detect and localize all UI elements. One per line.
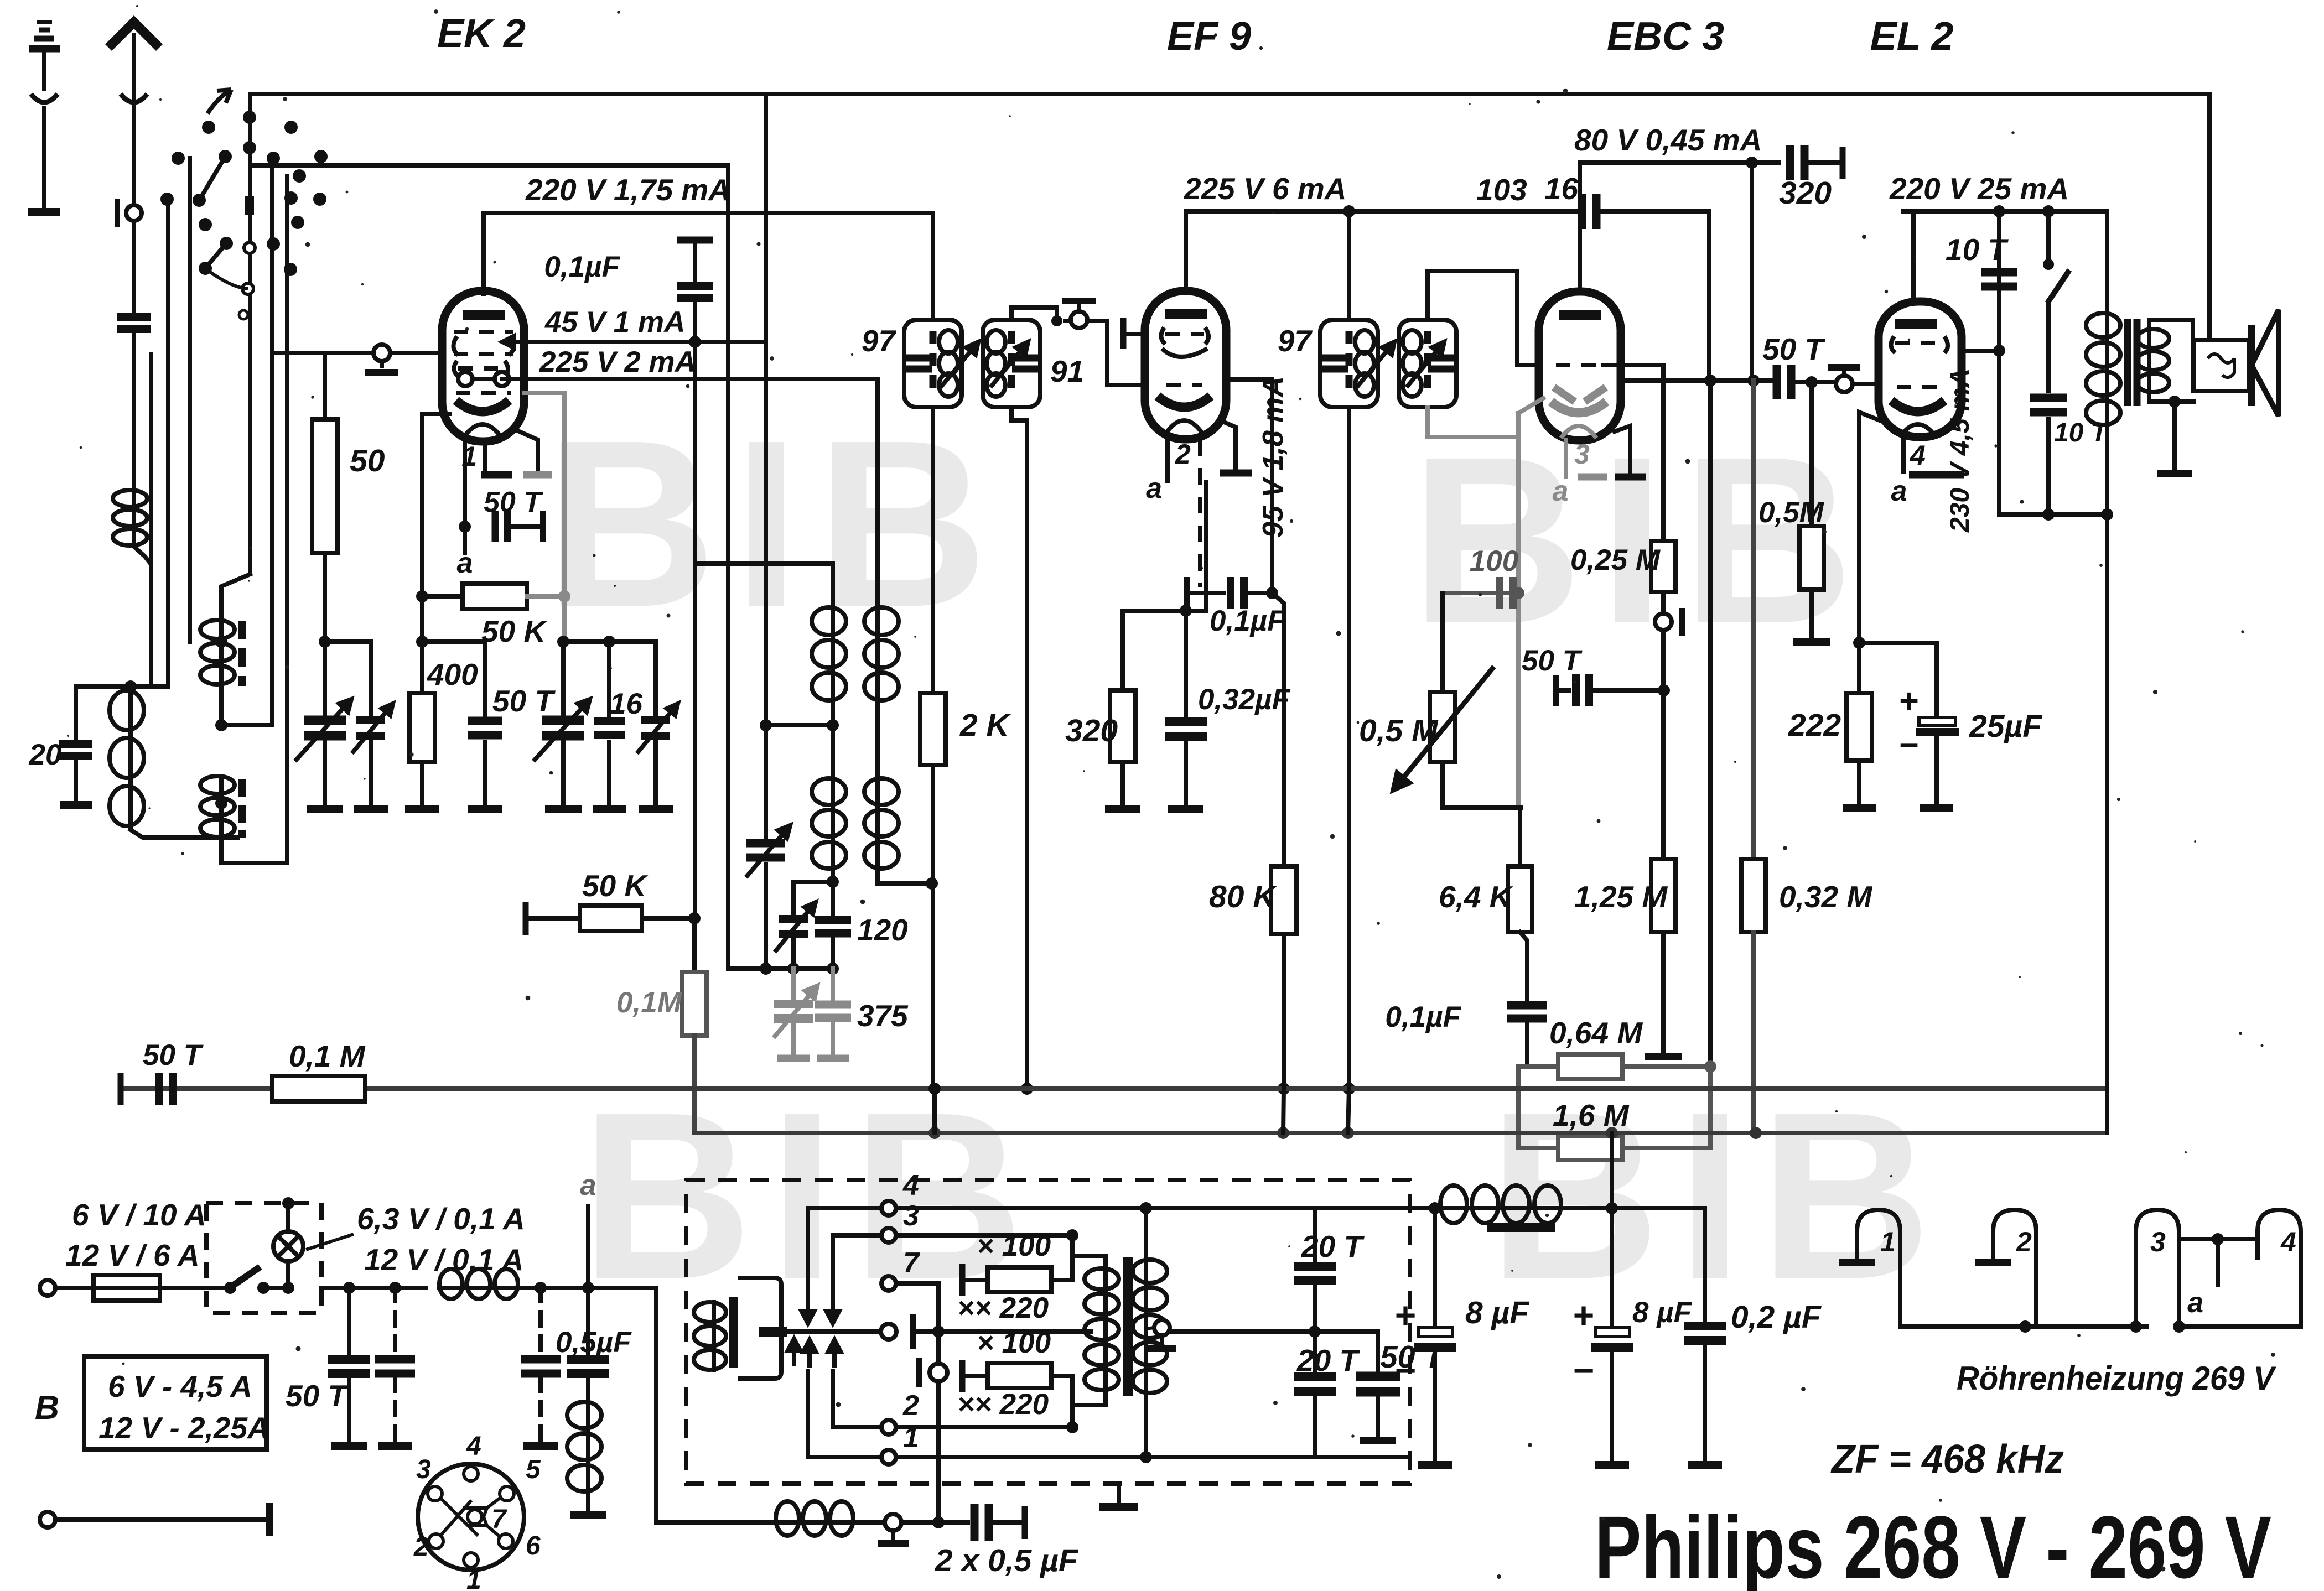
svg-text:6,3 V / 0,1 A: 6,3 V / 0,1 A (357, 1202, 525, 1236)
node choke in (1429, 1202, 1441, 1214)
capacitor 0.32uF (1165, 722, 1207, 736)
node 45V cap (689, 336, 701, 348)
switch contact dot 3 (243, 111, 256, 124)
wire 225V ext (1349, 209, 1577, 214)
ground 375 b (817, 1055, 849, 1062)
svg-text:3: 3 (416, 1455, 431, 1484)
svg-text:100: 100 (1470, 545, 1518, 578)
svg-text:8 µF: 8 µF (1465, 1295, 1530, 1330)
wire det row (1443, 591, 1518, 595)
wire 320 row (1123, 609, 1206, 613)
wire 032 stem (1184, 611, 1188, 720)
capacitor 16 coupling (1582, 194, 1596, 229)
wire contact7 (896, 1281, 938, 1286)
switch arc (210, 272, 248, 289)
capacitor 50T coupling (1777, 365, 1791, 399)
wire osec top (2149, 320, 2193, 340)
wire x3166 drop (1750, 163, 1754, 381)
capacitor 50T power (328, 1359, 370, 1374)
wire lamp top (286, 1203, 290, 1231)
coil osc sec lower (200, 774, 235, 839)
node 20T mid (1309, 1325, 1321, 1338)
wire contact2 left (833, 1371, 881, 1427)
wire input (55, 1286, 94, 1290)
svg-text:0,2 µF: 0,2 µF (1731, 1299, 1822, 1335)
svg-text:EK 2: EK 2 (437, 12, 526, 56)
wire IF2 sec bottom (1428, 407, 1518, 437)
EK2 pin right bar (523, 471, 552, 479)
EF9 right pin gnd (1220, 470, 1252, 477)
capacitor 0.1uF EF9 (1231, 577, 1244, 609)
wire 50Tp gnd (1376, 1395, 1380, 1436)
svg-text:120: 120 (857, 913, 908, 947)
svg-text:400: 400 (427, 657, 478, 691)
node row 120b (827, 963, 839, 975)
cap 0.1uF EF9 end (1184, 577, 1190, 609)
bus left terminal (118, 1073, 124, 1105)
EBC3 pin 3 (1564, 440, 1568, 477)
wire c16 gnd (607, 742, 611, 803)
vibrator core bar (729, 1297, 738, 1368)
wire 0.5M stem (1809, 382, 1814, 526)
coil output primary (2086, 311, 2120, 427)
svg-text:4: 4 (1910, 440, 1926, 471)
wire pot bottom (1440, 762, 1445, 808)
svg-text:3: 3 (903, 1200, 919, 1232)
EK2 grid cap circle (373, 345, 390, 361)
EBC3 bar right (1615, 474, 1646, 481)
capacitor 8uF no2 (1591, 1328, 1633, 1352)
switch contact dot 7 (267, 152, 280, 165)
ground c50T (331, 1442, 367, 1450)
node 50K right (558, 590, 570, 602)
wire 50T stem (483, 642, 487, 719)
wire IF1 prim bottom (931, 407, 935, 693)
IF2 sec trim arrow (1407, 342, 1444, 387)
node c50T (343, 1282, 355, 1294)
capacitor 50T tune (468, 721, 502, 735)
core lower (238, 779, 246, 838)
resistor 0.5M grid (1799, 526, 1824, 590)
svg-text:97: 97 (1278, 324, 1313, 358)
node a 50T (459, 521, 471, 533)
wire IF2 sec top route (1428, 271, 1539, 365)
wire row1160 a (325, 642, 371, 714)
wire switch col x492 (270, 158, 274, 725)
speaker horn bar (2248, 325, 2255, 406)
switch contact dot 13 (291, 216, 304, 229)
wire 120 top row (793, 880, 833, 884)
vibrator reed contact (881, 1324, 896, 1339)
node row trim (760, 963, 772, 975)
ground vc1 (307, 805, 343, 813)
svg-text:7: 7 (903, 1247, 920, 1279)
bottom choke (774, 1501, 855, 1536)
svg-text:225 V 2 mA: 225 V 2 mA (539, 346, 696, 378)
cap 0.1uF stem2 (693, 301, 697, 342)
tap dot lower coil (215, 797, 227, 809)
EK2 grid stem (380, 361, 384, 366)
voltage box (84, 1356, 267, 1449)
wire 16M left (1518, 1067, 1558, 1148)
wire 375 stub a (791, 969, 796, 1000)
capacitor dashed 2 (521, 1359, 561, 1374)
resistor 50K (463, 584, 527, 609)
switch lever 2 (205, 243, 226, 268)
wire contact3 left (833, 1235, 881, 1292)
ground 50T (468, 805, 502, 813)
wire node to x304 (131, 684, 168, 689)
svg-text:+: + (1573, 1294, 1595, 1335)
EK2 pin 1 (483, 441, 487, 471)
svg-text:50 T: 50 T (143, 1039, 204, 1072)
box gnd stem (1117, 1484, 1121, 1502)
wire 0.1M down (692, 1036, 697, 1133)
vib prim bot lead (1072, 1392, 1106, 1427)
wire c50T gnd (347, 1377, 351, 1442)
sec center circle (1154, 1320, 1170, 1335)
wire 50T to bar (508, 524, 541, 529)
svg-text:6 V - 4,5 A: 6 V - 4,5 A (108, 1369, 252, 1403)
switch contact dot 5 (172, 152, 185, 165)
svg-text:Philips 268 V - 269 V: Philips 268 V - 269 V (1595, 1498, 2271, 1591)
svg-text:EF 9: EF 9 (1167, 14, 1251, 59)
wire 400 stem (420, 642, 424, 693)
wire EF9 gridcap stub (1126, 332, 1145, 336)
ground 0.5uF coil (570, 1511, 606, 1519)
svg-text:97: 97 (862, 324, 897, 358)
pointer line lamp (308, 1235, 352, 1249)
node c05 (582, 1282, 594, 1294)
wire 16M right (1622, 1067, 1710, 1148)
wire EBC3 anode riser (1578, 163, 1582, 292)
capacitor 2x0.5uF (974, 1504, 989, 1541)
trimmer capacitor T3 arrow (637, 704, 678, 753)
bus B second (250, 163, 728, 168)
ground 0.2uF (1688, 1461, 1722, 1469)
resistor 1.25M (1651, 859, 1675, 932)
sec center stem (1160, 1335, 1164, 1345)
switch contact dot 6 (219, 150, 232, 163)
wire x1316 drop (726, 165, 730, 969)
tube EF9 (1145, 291, 1226, 439)
socket pin 7 (468, 1510, 482, 1524)
wire 2x05 end (988, 1520, 1023, 1525)
wire grey down to 1160 (564, 596, 609, 642)
wire 222 gnd (1857, 761, 1861, 803)
wire spk link (2175, 399, 2193, 404)
node 80K top (1266, 587, 1278, 599)
svg-text:222: 222 (1788, 708, 1841, 743)
wire 320 gnd (1120, 762, 1125, 803)
wire 20T1 stem (1313, 1208, 1317, 1262)
vibrator dashed box (686, 1180, 1410, 1484)
wire cdash1 stem (393, 1288, 397, 1355)
wire 400 gnd (420, 762, 424, 803)
capacitor 20T upper (1294, 1266, 1336, 1281)
svg-text:50 T: 50 T (286, 1379, 349, 1413)
svg-text:25µF: 25µF (1969, 709, 2043, 744)
wire 120 trim bottom (791, 938, 796, 969)
svg-text:225 V 6 mA: 225 V 6 mA (1184, 171, 1347, 206)
resistor 50 (312, 419, 338, 553)
svg-text:4: 4 (2280, 1226, 2296, 1257)
node 2x05 (932, 1516, 945, 1528)
switch contact dot 14 (313, 193, 326, 206)
wire coil gnd link (586, 1377, 590, 1400)
svg-text:a: a (457, 547, 473, 579)
wire c50T stem (347, 1288, 351, 1355)
wire 80K col down (1272, 593, 1284, 866)
svg-text:0,1µF: 0,1µF (1385, 1001, 1461, 1033)
socket pin 5 (500, 1486, 514, 1501)
wire to 125M (1661, 690, 1666, 859)
vibrator transformer secondary (1133, 1257, 1167, 1395)
switch contact bar (245, 196, 254, 215)
node x1689 bus (928, 1083, 941, 1095)
EK2 grid g3 (454, 352, 513, 356)
EK2 cathode (456, 401, 509, 412)
wire fuse to box (160, 1286, 226, 1290)
wire vc3 gnd (561, 742, 566, 803)
svg-text:2: 2 (902, 1390, 919, 1422)
EK2 pin right (517, 430, 538, 471)
EL2 grid g2 (1895, 341, 1943, 345)
wire vc1 gnd (323, 742, 327, 803)
node heater a2 (2212, 1233, 2224, 1245)
node bus2048 a (928, 1127, 941, 1139)
IF1 sec trim arrow (990, 342, 1028, 387)
vib arrow d1 (802, 1294, 814, 1323)
cap 0.1uF top bar (677, 237, 713, 244)
wire 50K2 right (642, 916, 694, 921)
trimmer capacitor osc (746, 843, 785, 857)
svg-text:× 100: × 100 (977, 1230, 1051, 1262)
svg-text:0,1 M: 0,1 M (289, 1039, 366, 1073)
wire 2K down (931, 765, 935, 1089)
svg-text:320: 320 (1065, 713, 1118, 748)
svg-text:20 T: 20 T (1296, 1343, 1360, 1377)
terminal 50K2 (523, 902, 529, 935)
switch lever 1 (199, 157, 225, 200)
wire contact1 left (808, 1371, 881, 1457)
EF9 a dashed line (1198, 439, 1202, 587)
psu choke (1438, 1186, 1563, 1223)
node 3091 (1704, 375, 1716, 387)
switch contact dot 15 (199, 218, 212, 231)
EL2 cathode (1891, 401, 1944, 412)
EK2 pin a line (463, 441, 467, 527)
switch arrow (207, 90, 231, 113)
power rail (321, 1286, 426, 1290)
EL2 grid hooks (1891, 336, 1948, 353)
wire x1696 (936, 1283, 941, 1522)
resistor 400 (409, 693, 435, 762)
capacitor 50T det (1576, 674, 1589, 706)
wire padder row (728, 966, 833, 971)
wire otp bottom (2105, 427, 2109, 514)
wire reed to primary (946, 1329, 1091, 1334)
wire earth stem (42, 51, 46, 89)
wire 50 res drop (323, 353, 327, 419)
socket pin 4 (464, 1467, 478, 1481)
node sw (2042, 205, 2055, 217)
wire 50Tp top (1376, 1332, 1380, 1373)
wire 225V 6mA (1186, 209, 1349, 214)
wire IF1 sec top (1011, 308, 1057, 321)
tube EL2 (1879, 301, 1962, 437)
wire 45V (524, 340, 766, 344)
EK2 heater link (473, 377, 495, 381)
svg-text:50 K: 50 K (481, 614, 548, 648)
node sec top (1140, 1202, 1152, 1214)
input terminal (40, 1280, 55, 1296)
EL2 pin bar (1909, 471, 1964, 479)
wire 02uF gnd (1703, 1344, 1707, 1460)
wire x1586 drop (875, 379, 880, 605)
svg-text:B: B (35, 1389, 59, 1426)
node det 50T (1658, 684, 1670, 696)
wire 230V row (1999, 512, 2107, 517)
node 230V b (2101, 508, 2113, 521)
wire switch col x273 top (149, 354, 153, 564)
wire 50K2 left (526, 916, 580, 921)
vibrator transformer primary (1085, 1266, 1119, 1392)
ground t3 (639, 805, 673, 813)
tube socket circle (418, 1464, 524, 1570)
trimmer osc arrow (746, 825, 790, 877)
plug socket cup left (31, 94, 58, 102)
wire x2319 link (1283, 1089, 1284, 1133)
wire switch col x304 (166, 200, 170, 687)
node prim bot (1066, 1421, 1078, 1433)
wire a to cap (1187, 591, 1224, 595)
svg-text:230 V 4,5 mA: 230 V 4,5 mA (1946, 368, 1975, 533)
trimmer capacitor 375t (774, 1004, 813, 1018)
EF9 cathode cup (1166, 420, 1202, 433)
wire 20T to reed (1169, 1329, 1315, 1334)
svg-text:+: + (1899, 682, 1919, 720)
wire busA drop (2207, 94, 2212, 340)
ground 0.5M (1793, 638, 1830, 646)
switch blade power (228, 1267, 260, 1289)
wire 320cap end (1804, 160, 1840, 165)
wire x3613 (1997, 211, 2001, 514)
vibrator transformer core (1123, 1257, 1133, 1396)
IF transformer 2 primary can (1320, 320, 1378, 407)
IF transformer 1 secondary can cap (1012, 358, 1040, 369)
wire antenna down 2 (132, 221, 136, 313)
EK2 grid g4 (454, 330, 513, 334)
svg-text:1: 1 (1880, 1226, 1896, 1257)
capacitor 100 (1500, 577, 1513, 609)
svg-text:0,64 M: 0,64 M (1549, 1016, 1643, 1050)
EBC3 right pin (1615, 426, 1630, 473)
svg-text:0,32 M: 0,32 M (1779, 880, 1872, 914)
variable capacitor VC3 arrow (533, 699, 590, 761)
ground cdash1 (378, 1442, 412, 1450)
EF9 anode (1165, 309, 1207, 319)
wire cap20 riser (76, 687, 131, 740)
jack bar (115, 199, 120, 227)
trimmer capacitor T2 arrow (352, 704, 393, 753)
wire 220V 25mA (1903, 209, 2107, 214)
svg-text:Röhrenheizung 269 V: Röhrenheizung 269 V (1957, 1360, 2277, 1397)
resistor x100 b (988, 1363, 1051, 1388)
capacitor 0.2uF (1684, 1326, 1726, 1340)
wire 50Tp link (1315, 1329, 1378, 1334)
node 50K left (416, 590, 428, 602)
wire contact4 (896, 1206, 1146, 1210)
node IF1 sec bus (1021, 1083, 1033, 1095)
wire 50K left (422, 594, 463, 599)
wire antenna coil to x273 (134, 547, 151, 685)
node speaker gnd (2169, 396, 2181, 408)
svg-text:5: 5 (526, 1455, 541, 1484)
wire 50T gnd (483, 742, 487, 803)
wire 120 cap stub (831, 882, 835, 915)
bottom circle term (885, 1514, 901, 1531)
svg-text:16: 16 (610, 688, 642, 720)
resistor 2K (920, 693, 946, 765)
node 2K join (926, 877, 938, 890)
vib arrow d2 (827, 1294, 839, 1323)
svg-text:103: 103 (1476, 173, 1527, 207)
wire EL2 anode riser (1911, 211, 1916, 301)
wire 064M right (1622, 1064, 1710, 1069)
vibrator reed bar (759, 1327, 787, 1337)
wire box to choke (1410, 1206, 1438, 1210)
wire sw stem (2046, 211, 2051, 264)
switch contact dot 18 (284, 263, 297, 276)
wire switch col x519 (285, 176, 289, 863)
node row 120a (787, 963, 800, 975)
EF9 pin 2 (1165, 439, 1170, 481)
node bus2048 b (1277, 1127, 1289, 1139)
vibrator contact link (913, 1329, 938, 1334)
det 50T end (1553, 675, 1559, 706)
svg-text:375: 375 (857, 999, 909, 1033)
vibrator reed (787, 1329, 881, 1334)
wire choke out (1563, 1206, 1705, 1210)
svg-text:80 K: 80 K (1209, 879, 1278, 914)
IF transformer 2 primary can cap (1321, 358, 1348, 369)
coil osc prim upper (812, 605, 846, 703)
bottom circle gnd (878, 1540, 909, 1547)
switch contact dot 4 (243, 141, 256, 154)
wire a stem (586, 1206, 590, 1288)
EBC3 bar left (1578, 474, 1607, 481)
EF9 right pin (1220, 420, 1236, 469)
variable capacitor VC1 arrow (295, 699, 351, 761)
capacitor antenna series (117, 317, 151, 329)
resistor 0.64M (1558, 1054, 1622, 1079)
wire upper coil top (221, 574, 250, 618)
wire 01uF to 064M (1525, 1021, 1529, 1067)
vib sec top lead (1144, 1208, 1148, 1257)
wire 120 cap bottom (831, 938, 835, 969)
wire 0.32M down (1751, 932, 1756, 1133)
wire 50 res to vc (323, 553, 327, 642)
resistor 222 (1846, 693, 1872, 761)
wire 8uF1 gnd (1433, 1352, 1437, 1460)
output transformer core (2128, 319, 2137, 406)
EK2 pin1 bar (481, 471, 512, 479)
wire vc3 stem (561, 642, 566, 714)
IF2 prim trim arrow (1357, 342, 1394, 387)
wire to EL2 grid (1853, 382, 1879, 386)
switch contact dot 10 (160, 193, 174, 206)
